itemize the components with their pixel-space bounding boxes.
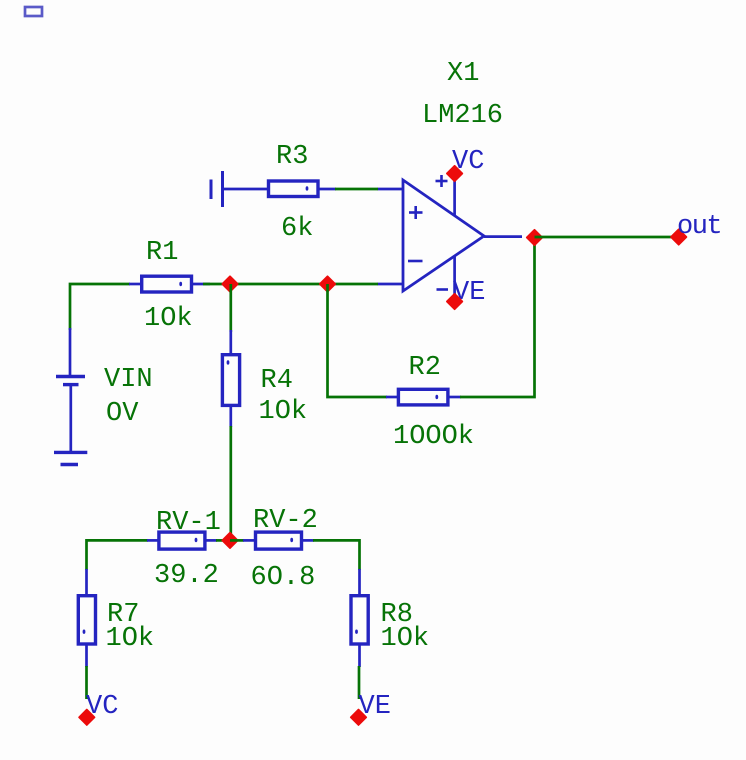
wire R3 to op-amp plus input bbox=[335, 188, 378, 191]
resistor R3 tick bbox=[306, 186, 309, 190]
wire source to R3 (blue pin) bbox=[223, 188, 269, 191]
node VC supply dot (op-amp) bbox=[447, 166, 463, 182]
op-amp U1 triangle bbox=[403, 180, 484, 291]
R4 top pin stub bbox=[229, 330, 232, 356]
R8 bottom pin stub bbox=[358, 644, 361, 667]
svg-text:R4: R4 bbox=[261, 366, 293, 396]
svg-text:VC: VC bbox=[86, 692, 118, 722]
svg-text:OV: OV bbox=[106, 399, 139, 429]
wire output to out terminal bbox=[535, 236, 680, 239]
resistor R1 body bbox=[142, 276, 192, 292]
svg-text:out: out bbox=[677, 212, 721, 242]
battery VIN pin wire bbox=[69, 328, 72, 376]
potentiometer RV-1 body bbox=[159, 532, 205, 549]
op-amp U1 VC pin wire bbox=[453, 174, 456, 217]
op-amp U1 output pin stub bbox=[484, 235, 522, 238]
R1 left pin stub bbox=[129, 283, 142, 286]
resistor R8 tick bbox=[355, 630, 358, 634]
battery VIN bottom plate bbox=[63, 383, 79, 386]
wire R7 to VC terminal bbox=[85, 666, 88, 699]
op-amp U1 VC supply plus mark bbox=[436, 175, 448, 187]
wire R1 to op-amp minus input (through junctions) bbox=[203, 283, 378, 286]
wire R2 to output node bbox=[460, 237, 535, 397]
op-amp U1 plus input pin stub bbox=[378, 188, 404, 191]
svg-text:1Ok: 1Ok bbox=[259, 397, 308, 427]
resistor R7 body bbox=[78, 596, 95, 644]
op-amp U1 VE supply minus mark bbox=[437, 288, 449, 291]
wire VIN corner to R1 bbox=[70, 284, 130, 330]
wire R4 to RV junction bbox=[229, 426, 232, 540]
resistor R4 body bbox=[222, 355, 239, 406]
svg-text:1Ok: 1Ok bbox=[381, 624, 430, 654]
resistor R7 tick bbox=[83, 630, 86, 634]
node junction J1 (R1/R4) bbox=[222, 276, 238, 292]
R4 bottom pin stub bbox=[229, 405, 232, 427]
svg-text:6k: 6k bbox=[281, 214, 313, 244]
svg-text:X1: X1 bbox=[447, 59, 479, 89]
resistor R4 tick bbox=[227, 360, 230, 364]
resistor R2 tick bbox=[435, 395, 438, 399]
op-amp U1 VE pin wire bbox=[453, 256, 456, 302]
svg-text:6O.8: 6O.8 bbox=[251, 563, 316, 593]
wire RV-1 to RV junction bbox=[216, 539, 232, 542]
page mark top-left bbox=[25, 7, 42, 16]
RV-2 right pin stub bbox=[302, 539, 315, 542]
node out terminal dot bbox=[671, 229, 687, 245]
battery VIN lower pin wire bbox=[69, 386, 72, 452]
node junction J2 (feedback) bbox=[320, 276, 336, 292]
node VE terminal dot bbox=[351, 710, 367, 726]
svg-text:LM216: LM216 bbox=[422, 101, 503, 131]
node RV junction bbox=[222, 533, 238, 549]
wire RV-2 to right corner bbox=[313, 540, 360, 570]
ground long bar bbox=[54, 451, 87, 454]
svg-text:1OOOk: 1OOOk bbox=[393, 422, 474, 452]
wire RV junction to RV-2 bbox=[230, 539, 244, 542]
R3 input source long bar bbox=[221, 171, 224, 207]
R3 input source short bar bbox=[210, 180, 213, 200]
R3 right pin stub bbox=[318, 188, 336, 191]
potentiometer RV-2 tick bbox=[290, 538, 293, 542]
R2 left pin stub bbox=[386, 396, 399, 399]
node junction output mid bbox=[527, 230, 543, 246]
node VE supply dot (op-amp) bbox=[447, 294, 463, 310]
svg-text:R1: R1 bbox=[146, 238, 178, 268]
svg-text:VE: VE bbox=[359, 692, 391, 722]
op-amp U1 plus input mark bbox=[409, 206, 423, 219]
wire R8 to VE terminal bbox=[358, 666, 361, 699]
RV-1 right pin stub bbox=[205, 539, 217, 542]
R8 top pin stub bbox=[358, 569, 361, 596]
battery VIN top plate bbox=[56, 375, 85, 378]
RV-2 left pin stub bbox=[243, 539, 256, 542]
resistor R3 body bbox=[269, 181, 319, 197]
R2 right pin stub bbox=[448, 396, 461, 399]
svg-text:1Ok: 1Ok bbox=[144, 304, 193, 334]
RV-1 left pin stub bbox=[147, 539, 159, 542]
R7 bottom pin stub bbox=[85, 644, 88, 667]
resistor R2 body bbox=[398, 389, 448, 405]
wire left corner to RV-1 bbox=[87, 540, 149, 570]
svg-text:VIN: VIN bbox=[104, 365, 153, 395]
R1 right pin stub bbox=[192, 283, 211, 286]
op-amp U1 minus input mark bbox=[408, 260, 423, 263]
potentiometer RV-2 body bbox=[256, 532, 302, 549]
wire J2 down and right to R2 bbox=[328, 284, 388, 397]
R7 top pin stub bbox=[85, 569, 88, 596]
svg-text:1Ok: 1Ok bbox=[106, 624, 155, 654]
op-amp U1 minus input pin stub bbox=[378, 283, 404, 286]
resistor R1 tick bbox=[179, 282, 182, 286]
resistor R8 body bbox=[351, 596, 368, 644]
wire J1 down to R4 bbox=[229, 284, 232, 332]
svg-text:R3: R3 bbox=[276, 142, 308, 172]
node VC terminal dot bbox=[79, 710, 95, 726]
svg-text:39.2: 39.2 bbox=[154, 561, 219, 591]
ground short bar bbox=[61, 463, 79, 466]
potentiometer RV-1 tick bbox=[195, 538, 198, 542]
svg-text:R2: R2 bbox=[409, 353, 441, 383]
